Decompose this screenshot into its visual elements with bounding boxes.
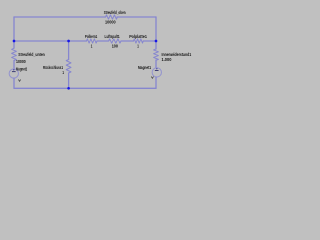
svg-text:1: 1 <box>91 43 93 48</box>
wire middle horizontal seg4 <box>143 40 156 42</box>
svg-text:Magnet1: Magnet1 <box>138 65 151 70</box>
svg-text:10000: 10000 <box>105 20 116 25</box>
wire left vertical upper <box>13 17 15 48</box>
wire middle vertical upper <box>68 41 70 60</box>
source Magnet2 circle <box>9 69 18 78</box>
wire left vertical mid <box>13 61 15 69</box>
resistor Streufeld_unten zigzag <box>12 48 17 60</box>
svg-text:Streufeld_unten: Streufeld_unten <box>18 52 45 57</box>
wire bottom horizontal <box>14 87 156 89</box>
svg-text:Streufeld_oben: Streufeld_oben <box>104 10 126 15</box>
svg-text:Rückschluss1: Rückschluss1 <box>43 65 63 70</box>
svg-text:1.000: 1.000 <box>162 57 172 62</box>
junction node middle top (68.6,41) <box>67 40 70 43</box>
resistor Polkern1 zigzag <box>87 39 98 43</box>
resistor Luftspalt1 zigzag <box>109 39 121 43</box>
wire middle horizontal seg2 <box>97 40 109 42</box>
resistor Rueckschluss1 zigzag <box>66 60 71 74</box>
svg-text:Luftspalt1: Luftspalt1 <box>105 34 121 39</box>
wire right vertical upper <box>155 17 157 49</box>
resistor Streufeld_oben zigzag <box>106 15 118 19</box>
polarity marks inside Magnet1 (arrow + bar) <box>155 68 159 71</box>
svg-text:1: 1 <box>137 43 139 48</box>
resistor Polplatte1 zigzag <box>134 39 144 43</box>
polarity marks inside Magnet2 (arrow + bar) <box>12 69 16 72</box>
wire right vertical mid <box>155 60 157 68</box>
wire middle horizontal seg1 <box>14 40 87 42</box>
svg-text:Polplatte1: Polplatte1 <box>129 34 147 39</box>
svg-text:Polkern1: Polkern1 <box>85 34 98 39</box>
wire top horizontal right <box>117 16 156 18</box>
svg-text:Magnet2: Magnet2 <box>16 67 27 72</box>
wire left vertical lower <box>13 78 15 88</box>
svg-text:Innenwiderstand1: Innenwiderstand1 <box>162 52 192 57</box>
svg-text:1: 1 <box>62 70 64 75</box>
source Magnet1 circle <box>152 68 161 77</box>
svg-text:10000: 10000 <box>16 59 26 64</box>
wire middle horizontal seg3 <box>121 40 134 42</box>
svg-text:v: v <box>18 78 21 83</box>
svg-text:100: 100 <box>112 43 119 48</box>
svg-text:v: v <box>151 74 154 79</box>
junction node right (156,41) <box>155 40 158 43</box>
wire right vertical lower <box>155 77 157 88</box>
wire middle vertical lower <box>68 73 70 88</box>
junction node middle bottom (68.6,88) <box>67 87 70 90</box>
wire top horizontal left <box>14 16 106 18</box>
resistor Innenwiderstand1 zigzag <box>154 49 159 60</box>
junction node left (14,41) <box>13 40 16 43</box>
